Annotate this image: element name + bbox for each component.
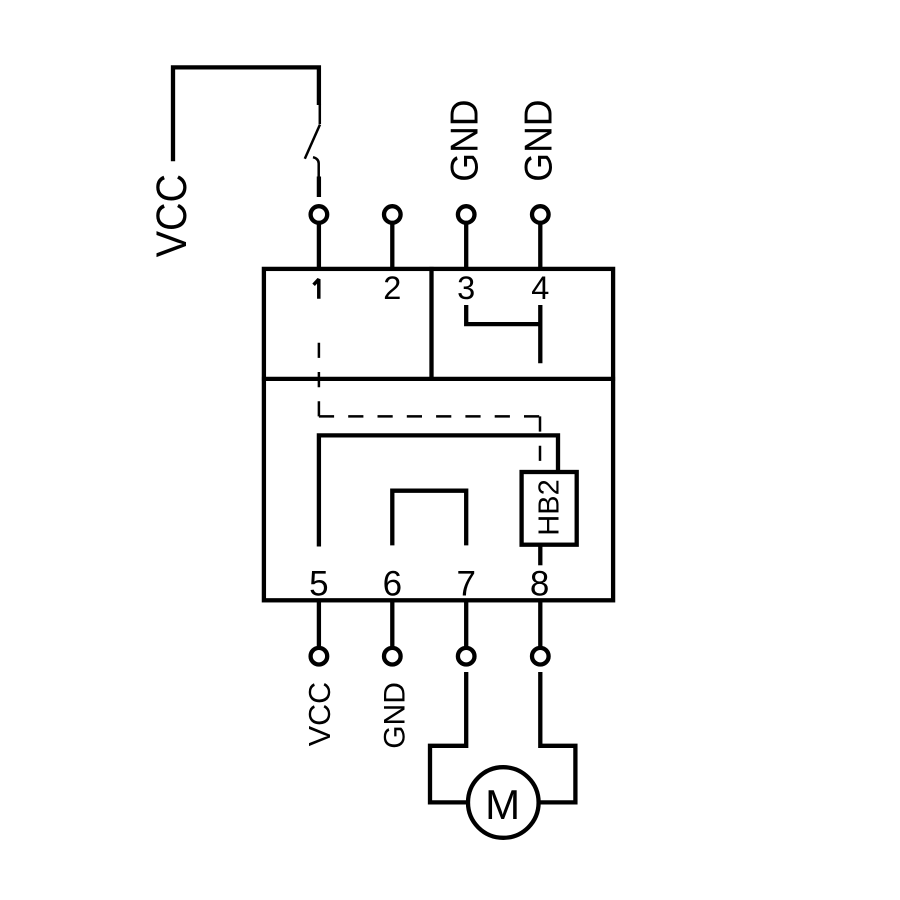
switch S1 (305, 105, 320, 177)
pin 3 stub (464, 223, 468, 267)
pin number 1 (314, 279, 319, 299)
svg-text:GND: GND (518, 99, 561, 181)
svg-text:4: 4 (531, 270, 549, 306)
pin 7 stub below box (464, 602, 468, 647)
pin 5 stub below box (317, 602, 321, 647)
svg-text:GND: GND (444, 99, 487, 181)
wire pin4 internal stub (538, 305, 542, 363)
svg-text:HB2: HB2 (534, 479, 566, 535)
pin 4 stub (538, 223, 542, 267)
wire pin 7 to motor (430, 672, 469, 802)
wire pin 8 to motor (539, 672, 576, 802)
pin 3 terminal circle (458, 206, 475, 223)
pin 8 stub below box (538, 602, 542, 647)
svg-text:5: 5 (309, 564, 328, 603)
pin 4 terminal circle (532, 206, 549, 223)
wire pin3 to pin4 link (466, 305, 540, 324)
pin 2 stub (390, 223, 394, 267)
svg-text:VCC: VCC (303, 682, 337, 746)
svg-text:6: 6 (383, 564, 402, 603)
svg-text:3: 3 (457, 270, 475, 306)
pin 2 terminal circle (384, 206, 401, 223)
wire VCC to switch (173, 67, 319, 161)
wire HB2 to pin 8 (538, 545, 542, 566)
svg-text:8: 8 (530, 564, 549, 603)
svg-text:M: M (485, 781, 520, 828)
dashed control line pin1 to HB2 (318, 343, 321, 417)
svg-text:7: 7 (456, 564, 475, 603)
pin 6 stub below box (390, 602, 394, 647)
pin 5 terminal circle (311, 648, 328, 665)
svg-text:2: 2 (383, 270, 401, 306)
IC internal divider horizontal (262, 377, 615, 381)
svg-text:GND: GND (378, 682, 411, 749)
motor M1 circle (468, 767, 539, 838)
pin 8 terminal circle (532, 648, 549, 665)
pin 1 terminal circle (311, 206, 328, 223)
pin 1 stub (317, 223, 321, 267)
pin 6 terminal circle (384, 648, 401, 665)
wire switch to pin 1 (317, 177, 321, 198)
wire pin5 to HB2 (319, 435, 558, 546)
IC internal divider vertical (429, 267, 433, 379)
IC body outline U1 (264, 269, 613, 600)
pin 7 terminal circle (458, 648, 475, 665)
half-bridge block HB2 (522, 472, 577, 545)
wire pin6 to pin7 link (392, 491, 466, 546)
svg-text:VCC: VCC (147, 174, 195, 257)
